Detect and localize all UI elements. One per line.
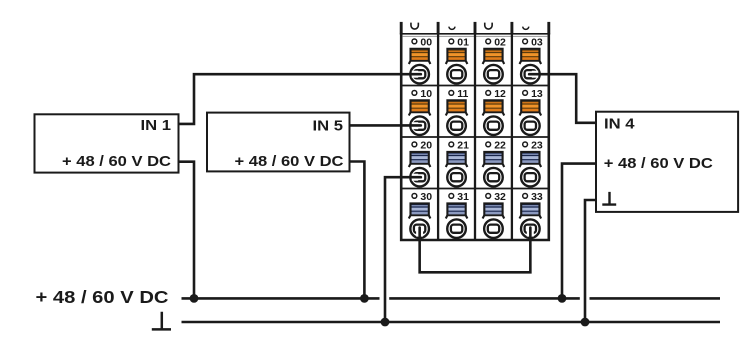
wire IN 1 +48/60V to supply bus (179, 162, 195, 299)
svg-text:20: 20 (420, 139, 432, 151)
junction (558, 294, 567, 303)
device box IN 4 (596, 112, 738, 212)
terminal 13 (520, 88, 543, 135)
svg-text:+ 48 / 60 V DC: + 48 / 60 V DC (604, 155, 713, 172)
wire IN 4 +48/60V to supply bus (562, 164, 596, 299)
top contact tick 4 (510, 22, 513, 35)
row separator 3 (401, 188, 549, 190)
+48/60 V DC supply bus (182, 297, 721, 300)
junction (581, 318, 590, 327)
terminal 23 (520, 139, 543, 186)
terminal 01 (446, 36, 469, 83)
terminal 21 (446, 139, 469, 186)
top contact tick 5 (547, 22, 550, 35)
svg-text:23: 23 (531, 139, 543, 151)
row separator 2 (401, 136, 549, 138)
svg-text:30: 30 (420, 191, 432, 203)
ground symbol in IN 4 box (602, 192, 616, 205)
column separator 3 (511, 34, 513, 240)
svg-text:+ 48 / 60 V DC: + 48 / 60 V DC (36, 287, 169, 307)
wire IN 4 ground to ground bus (585, 200, 596, 322)
svg-text:33: 33 (531, 191, 543, 203)
wire IN 1 output to terminal 00 (179, 74, 421, 124)
svg-text:+ 48 / 60 V DC: + 48 / 60 V DC (62, 153, 171, 170)
terminal 12 (483, 88, 506, 135)
svg-text:03: 03 (531, 36, 543, 48)
top contact tick 1 (400, 22, 403, 35)
column separator 1 (437, 34, 439, 240)
svg-text:12: 12 (494, 88, 506, 100)
terminal 31 (446, 191, 469, 238)
svg-text:+ 48 / 60 V DC: + 48 / 60 V DC (235, 153, 344, 170)
svg-text:10: 10 (420, 88, 432, 100)
terminal 02 (483, 36, 506, 83)
bus label + 48 / 60 V DC (36, 287, 169, 307)
socket symbol U column 1 (411, 23, 418, 30)
device box IN 5 (207, 113, 350, 172)
socket arc column 4 (523, 27, 529, 30)
jumper wire terminal 30 to terminal 33 (420, 228, 531, 273)
terminal block body outline (400, 33, 550, 240)
svg-text:22: 22 (494, 139, 506, 151)
terminal 00 (409, 36, 432, 83)
svg-text:00: 00 (420, 36, 432, 48)
wire terminal 03 to IN 4 input (529, 74, 596, 123)
terminal 30 (409, 191, 432, 238)
terminal 10 (409, 88, 432, 135)
junction (381, 318, 390, 327)
terminal 03 (520, 36, 543, 83)
svg-text:IN 4: IN 4 (604, 115, 635, 132)
terminal 20 (409, 139, 432, 186)
top contact tick 2 (437, 22, 440, 35)
junction (190, 294, 199, 303)
svg-text:13: 13 (531, 88, 543, 100)
ground bus (182, 321, 721, 324)
svg-text:32: 32 (494, 191, 506, 203)
socket symbol U column 3 (485, 23, 492, 30)
svg-text:01: 01 (457, 36, 469, 48)
ground symbol at ground bus (152, 312, 171, 330)
junction (360, 294, 369, 303)
top contact tick 3 (474, 22, 477, 35)
svg-text:11: 11 (457, 88, 468, 100)
terminal 33 (520, 191, 543, 238)
socket arc column 2 (449, 27, 455, 30)
column separator 2 (474, 34, 476, 240)
device box IN 1 (35, 114, 179, 172)
wire IN 5 +48/60V to supply bus (350, 162, 365, 299)
svg-text:21: 21 (457, 139, 469, 151)
terminal 32 (483, 191, 506, 238)
svg-text:31: 31 (457, 191, 469, 203)
svg-text:02: 02 (494, 36, 506, 48)
wire IN 5 output to terminal 10 (350, 124, 421, 127)
terminal 22 (483, 139, 506, 186)
svg-text:IN 1: IN 1 (141, 117, 172, 134)
terminal 11 (446, 88, 469, 135)
wire terminal 20 to ground bus (385, 177, 421, 322)
row separator 1 (401, 85, 549, 87)
svg-text:IN 5: IN 5 (313, 118, 344, 135)
